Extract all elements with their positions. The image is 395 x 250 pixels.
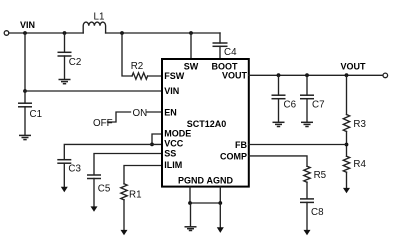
svg-text:R3: R3 [353,119,366,130]
svg-text:COMP: COMP [220,152,247,162]
node FB junction [345,143,349,147]
svg-text:PGND: PGND [178,176,205,186]
svg-text:VIN: VIN [20,20,35,30]
capacitor C5 [87,175,101,207]
resistor R4 [343,156,349,172]
capacitor C7 [300,75,314,122]
wire PGND to earth [190,203,192,227]
node R2 junction [120,31,124,35]
svg-text:AGND: AGND [207,176,234,186]
ground C6 earth [273,122,285,126]
wire AGND drop [219,187,221,203]
wire SW drop [190,33,192,59]
node SW junction [189,31,193,35]
wire L1 to C4 corner [106,32,220,34]
capacitor C1 [18,91,32,135]
node MODE-VCC junction [150,143,154,147]
node AGND junction [218,201,222,205]
resistor R2 [132,73,148,79]
svg-text:OFF: OFF [93,118,113,129]
svg-text:R2: R2 [131,61,144,72]
ground C7 earth [301,122,313,126]
capacitor C4 [213,43,228,46]
terminal VOUT output [383,73,388,78]
svg-text:SCT12A0: SCT12A0 [187,119,227,129]
svg-text:L1: L1 [94,12,105,23]
wire COMP rail [249,156,307,166]
svg-text:VOUT: VOUT [340,61,366,71]
capacitor C8 [300,199,314,230]
ground C5 arrow [91,206,98,211]
ground AGND arrow [217,227,224,233]
node C2 junction [63,31,67,35]
wire AGND to ground [219,203,221,228]
svg-text:MODE: MODE [164,129,191,139]
svg-text:SW: SW [184,62,199,72]
svg-text:C6: C6 [284,100,297,111]
ground R4 arrow [343,188,350,193]
wire VOUT rail [249,74,383,76]
wire R1 to ground [123,200,125,231]
node R3 junction [345,73,349,77]
svg-text:R5: R5 [314,170,327,181]
op-amp U1 IC box SCT12A0 [162,59,249,187]
wire VCC rail [64,144,162,159]
svg-text:C1: C1 [30,109,43,120]
svg-text:ILIM: ILIM [164,160,182,170]
switch OFF/ON [108,112,131,122]
wire R3 to FB node [346,132,348,157]
wire BOOT drop lower [219,46,221,59]
wire input to L1 [9,32,83,34]
svg-text:FSW: FSW [164,71,185,81]
ground PGND earth [185,227,197,231]
ground R1 arrow [121,230,128,235]
node C7 junction [305,73,309,77]
resistor R5 [304,166,310,182]
capacitor C3 [57,160,71,188]
svg-text:R1: R1 [129,190,142,201]
svg-text:C7: C7 [312,100,325,111]
node VIN rail junction [23,89,27,93]
wire R5 to C8 [306,182,308,199]
svg-text:EN: EN [164,108,177,118]
node input junction [23,31,27,35]
svg-text:C4: C4 [224,47,237,58]
wire FB rail [249,144,347,146]
wire ON to EN [147,111,162,113]
ground C8 arrow [304,230,311,235]
svg-text:VOUT: VOUT [222,71,248,81]
wire input down to VIN rail [24,33,26,91]
terminal VIN input [4,31,9,36]
svg-text:FB: FB [235,140,247,150]
wire BOOT drop upper [219,33,221,43]
capacitor C2 [58,33,72,79]
wire R4 to ground [346,172,348,188]
svg-text:R4: R4 [353,159,366,170]
node PGND junction [188,201,192,205]
svg-text:SS: SS [164,149,176,159]
wire SS rail [94,154,162,175]
wire ILIM rail [124,166,162,184]
resistor R3 [343,115,349,132]
wire PGND-AGND link [190,202,220,204]
ground C1 earth [19,135,31,139]
wire R2 to FSW [148,75,162,77]
svg-text:C3: C3 [68,164,81,175]
wire MODE stub [152,134,162,144]
svg-text:C8: C8 [311,207,324,218]
wire VOUT to R3 [346,75,348,114]
node C6 junction [277,73,281,77]
svg-text:ON: ON [133,108,148,119]
capacitor C6 [272,75,286,122]
svg-text:C2: C2 [69,57,82,68]
wire R2 branch vertical [122,33,132,76]
svg-text:C5: C5 [98,183,111,194]
ground C3 arrow [61,187,68,192]
wire VIN rail [25,90,162,92]
svg-text:VIN: VIN [164,86,179,96]
svg-text:VCC: VCC [164,139,184,149]
inductor L1 [83,22,105,33]
resistor R1 [121,184,127,200]
wire PGND drop [189,187,191,203]
ground C2 earth [59,80,71,84]
